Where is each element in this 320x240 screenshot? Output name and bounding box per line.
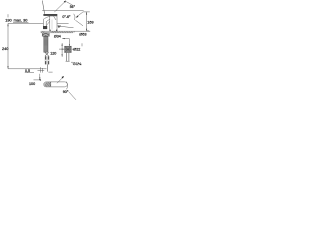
leader 56 to text [66,2,72,6]
dimension text dia22 [73,48,80,52]
underline 0,5 [25,71,34,73]
hose middle light band [45,60,50,62]
hose crossing [45,52,49,56]
svg-text:240: 240 [2,47,8,51]
svg-text:190: 190 [5,17,12,22]
svg-text:120: 120 [50,51,56,55]
arrowhead leader rod [39,77,40,80]
svg-text:56°: 56° [70,5,76,9]
swing line 56 [54,1,65,12]
arrowhead swing tip [64,1,66,3]
mounting nut [42,33,49,36]
arrow dia63 right on deck line [87,30,90,31]
counter hatch [41,31,75,33]
svg-text:Ø22: Ø22 [73,48,80,52]
dimension line 120 [61,43,63,57]
tick 169 top [83,11,90,13]
counter top line [41,30,91,32]
spout rear edge [46,21,49,25]
arrowhead leader 0-6 [76,16,79,18]
svg-text:G1¼: G1¼ [73,61,82,66]
leader G [71,61,73,63]
spout outlet tube right [45,21,47,26]
dimension text dia63 [79,32,86,37]
dimension text 169 [87,21,93,25]
svg-text:0°-6°: 0°-6° [62,15,71,19]
dimension text max. 30 [14,17,29,22]
body foot right [56,30,58,32]
lever blade [43,14,57,16]
waste fitting [65,46,72,52]
handle top view capsule [44,82,68,87]
dimension text 240 [2,47,8,51]
arrowhead leader rod horizontal [39,79,41,81]
waste tube bottom [66,60,70,62]
svg-text:Ø63: Ø63 [79,32,86,37]
swivel arrowhead [62,76,65,79]
svg-text:Ø34: Ø34 [54,35,61,39]
dim arrow fitting right [72,49,75,50]
rod tick [48,71,52,73]
arrow 120 bottom [62,54,63,57]
dimension text 56deg [70,5,76,9]
capsule grip section fill [44,82,51,87]
wire body top extension [42,10,83,12]
wire hose-end baseline [8,68,47,70]
leader rod vertical [39,74,41,80]
arrow 169 bottom [86,29,87,32]
counter bottom line [41,32,73,34]
svg-text:90°: 90° [63,90,69,94]
swivel arrow line [57,77,63,83]
dimension text 100 [29,82,35,86]
swivel arc [66,82,67,90]
spout tilt label 6deg small [58,24,62,28]
dimension text 0-6deg [62,15,71,19]
ext tick above dia22 [81,43,83,46]
spout tilt 0deg line [57,22,68,24]
dimension line 169 [86,12,88,32]
arrow 120 top [62,43,63,46]
waste tube left [65,53,67,61]
arrow 169 top [86,12,87,15]
tick after 0,5 right [42,68,44,73]
hose right [48,56,50,64]
spout top line [44,16,50,18]
arrowhead leader down [69,44,70,47]
arrow top 240 [8,23,9,26]
spout underside [47,19,50,21]
leader 0-6 up [76,12,83,17]
arrowhead leader left [62,38,65,39]
waste tube right [68,53,70,61]
dimension text dia34 [54,35,61,39]
aerator [43,26,47,29]
cartridge line inside body [54,16,56,20]
leader rod horizontal [34,79,41,81]
pull rod [47,64,49,71]
capsule hatch [45,82,51,87]
label 0,5 [25,69,30,73]
dim arrow fitting left [59,49,64,50]
hose left [45,56,47,64]
svg-text:169: 169 [87,21,93,25]
tick after 0,5 left [39,67,41,72]
leader to waste fitting [62,39,69,45]
svg-text:100: 100 [29,82,35,86]
leader 0-6 down [75,20,83,26]
arrow bottom 240 [8,66,9,69]
ext line 190 above text [7,14,9,17]
lever open position [42,1,44,14]
dimension text 90deg [63,90,69,94]
faucet body [50,16,57,31]
dimension text 120 [50,51,56,55]
dimension text 190 [5,17,12,22]
wire outlet level extension line [8,22,43,24]
capsule divider [50,82,52,87]
body foot left [49,30,51,32]
spout outlet tube left [42,19,44,26]
swivel lower line [69,92,76,100]
threaded shank [44,36,48,52]
dimension line 240 vertical [7,23,9,68]
arc 0-6 [74,14,75,20]
spout tilt 6deg line [57,26,74,28]
dim line 0,5 [38,70,45,72]
dimension text G1 1/4 [73,61,82,66]
body inner highlight line [51,20,53,30]
underline max30 [13,21,28,23]
svg-text:max. 30: max. 30 [14,17,29,22]
